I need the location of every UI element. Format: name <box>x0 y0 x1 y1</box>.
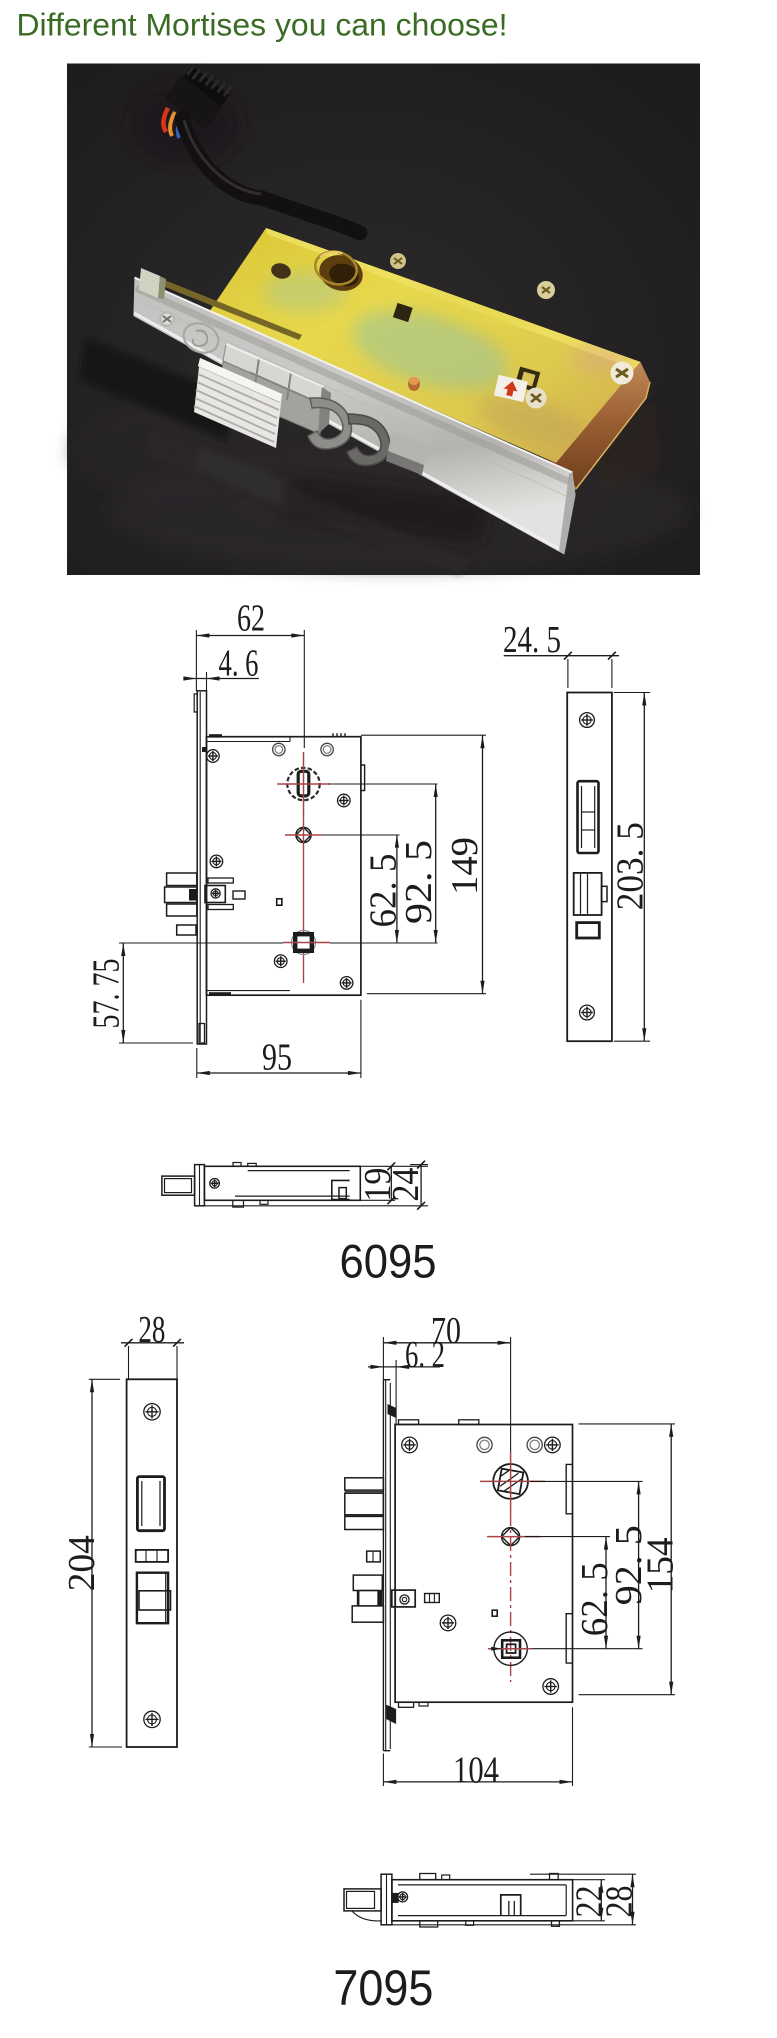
shadow band below faceplate <box>80 338 232 440</box>
7095 right edge tab B <box>566 1614 572 1663</box>
dimension 95 <box>197 1000 361 1079</box>
red arrow sticker <box>494 375 528 402</box>
7095 body bottom tabs <box>399 1702 429 1707</box>
6095 screw D <box>274 955 287 968</box>
svg-text:4. 6: 4. 6 <box>219 643 259 685</box>
6095 faceplate latch cutout <box>578 781 599 853</box>
7095 cylinder hole <box>493 1464 528 1499</box>
6095 screw B <box>338 794 351 807</box>
7095 right edge tab A <box>566 1464 572 1513</box>
6095 body bottom edge details <box>207 991 291 996</box>
7095 faceplate narrow cutout <box>136 1550 168 1562</box>
7095 lock body outline <box>395 1425 572 1703</box>
dimension 28 <box>121 1309 184 1379</box>
6095 bottom view faceplate <box>195 1165 205 1206</box>
6095 aux bolt assembly <box>205 878 245 910</box>
deadbolt spindle square hole <box>515 367 541 392</box>
page title text <box>17 6 508 42</box>
dimension 22 <box>568 1880 610 1921</box>
cylinder hole in gold plate <box>311 247 367 296</box>
gold plate green patina patches <box>263 260 630 456</box>
dimension 4.6 <box>183 643 258 738</box>
faceplate top end tab <box>139 268 166 299</box>
dimension 62.5 <box>363 835 405 943</box>
svg-text:95: 95 <box>262 1037 292 1079</box>
stainless faceplate strip <box>133 278 575 555</box>
photo floor reflection glow <box>70 405 690 570</box>
lock body gold plate <box>205 228 641 463</box>
6095 faceplate front view outline <box>567 693 612 1042</box>
7095 post hole A <box>477 1437 492 1452</box>
6095 faceplate screw top <box>580 713 595 728</box>
svg-text:6. 2: 6. 2 <box>405 1334 445 1376</box>
7095 hole extension lines <box>525 1424 675 1695</box>
6095 screw E <box>340 977 353 990</box>
6095 right edge tab <box>361 765 365 791</box>
6095 bottom view top tabs <box>233 1163 256 1167</box>
svg-text:149: 149 <box>444 837 486 895</box>
6095 tiny square mark <box>277 899 282 905</box>
7095 label text <box>333 1960 433 2016</box>
dimension 24.5 <box>503 619 619 688</box>
7095 screw B <box>545 1437 561 1453</box>
6095 screw A <box>207 750 220 763</box>
lock case copper side face <box>441 362 650 491</box>
screw top right on gold plate <box>611 362 634 385</box>
7095 faceplate screw top <box>144 1404 160 1420</box>
svg-text:24. 5: 24. 5 <box>503 619 561 661</box>
svg-text:104: 104 <box>453 1750 499 1792</box>
screw upper middle on gold plate <box>537 281 555 299</box>
screw on case front edge <box>390 253 406 269</box>
6095 post hole A <box>273 743 285 755</box>
6095 vertical red centerline <box>303 814 305 983</box>
7095 faceplate screw bottom <box>144 1711 160 1727</box>
7095 deadbolt spindle hole <box>488 1632 532 1665</box>
7095 faceplate outline <box>127 1379 177 1747</box>
7095 faceplate latch cutout <box>137 1477 164 1531</box>
dimension 62 <box>196 598 304 749</box>
dimension 154 <box>639 1424 681 1695</box>
7095 screw A <box>402 1437 418 1453</box>
screw on faceplate <box>159 311 175 327</box>
reflection of lock on floor <box>130 85 660 575</box>
dimension 92.5 <box>398 784 440 943</box>
svg-text:204: 204 <box>61 1535 103 1591</box>
svg-text:203. 5: 203. 5 <box>609 822 651 910</box>
svg-text:Different Mortises you can cho: Different Mortises you can choose! <box>17 6 508 42</box>
6095 screw C <box>210 855 223 868</box>
6095 faceplate small cutout <box>577 923 600 938</box>
7095 bottom view latch <box>344 1889 382 1921</box>
7095 bottom view screw <box>392 1892 408 1903</box>
6095 deadbolt spindle hole <box>283 931 330 955</box>
dimension 57.75 <box>86 943 194 1043</box>
svg-text:28: 28 <box>598 1886 640 1918</box>
svg-text:57. 75: 57. 75 <box>86 959 128 1029</box>
7095 cylinder hole centerlines <box>480 1452 545 1512</box>
svg-text:62: 62 <box>237 598 265 640</box>
latch bolt slabs <box>220 344 346 434</box>
photo background <box>67 64 700 576</box>
6095 label text <box>340 1235 437 1288</box>
spring bolt curls <box>308 398 428 475</box>
7095 post hole B <box>527 1437 542 1452</box>
6095 bottom view body <box>204 1166 360 1200</box>
svg-text:6095: 6095 <box>340 1235 437 1288</box>
7095 tiny square mark <box>492 1610 497 1616</box>
dimension 203.5 <box>609 693 651 1042</box>
dimension 19 <box>357 1162 428 1204</box>
7095 aux bolt bars <box>352 1575 383 1622</box>
dimension 92.5 7095 <box>608 1481 650 1648</box>
connector wires <box>163 108 189 140</box>
6095 cylinder hole centerlines <box>277 752 330 814</box>
embossed logo on faceplate <box>179 318 223 358</box>
6095 handle hub hole <box>296 827 311 842</box>
7095 bottom view top tabs <box>420 1874 558 1880</box>
rivet pin on gold plate <box>408 377 420 391</box>
svg-text:24: 24 <box>385 1168 427 1202</box>
6095 hole extension lines <box>119 735 486 994</box>
7095 body top tabs <box>399 1420 479 1425</box>
7095 bottom view faceplate <box>381 1874 392 1925</box>
case front edge behind faceplate <box>150 275 302 340</box>
svg-text:7095: 7095 <box>333 1960 433 2016</box>
svg-text:92. 5: 92. 5 <box>398 840 440 924</box>
6095 body top edge details <box>207 733 346 741</box>
6095 latch bolt bars <box>165 873 197 916</box>
black cable <box>182 118 360 233</box>
7095 latch guide small rect <box>367 1551 381 1562</box>
wire harness connector <box>164 58 236 129</box>
7095 faceplate side strip <box>383 1380 396 1751</box>
6095 latch guide small rect <box>177 925 196 935</box>
dimension 204 <box>61 1379 122 1747</box>
7095 vertical red centerline <box>510 1512 512 1682</box>
6095 lock body outline <box>207 737 361 996</box>
photo defs <box>0 0 1 1</box>
7095 bottom view detail square <box>501 1895 521 1916</box>
6095 bottom view latch <box>162 1176 195 1195</box>
7095 latch bolt bars <box>345 1478 384 1530</box>
7095 handle hub hole <box>487 1528 540 1546</box>
7095 faceplate deadbolt cutout <box>137 1573 171 1624</box>
svg-text:28: 28 <box>138 1309 165 1351</box>
6095 bottom view bottom tabs <box>233 1200 268 1207</box>
dimension 6.2 <box>368 1334 445 1425</box>
dimension 28 bottom <box>392 1874 640 1925</box>
6095 bottom view screw <box>210 1179 220 1189</box>
7095 screw D <box>543 1679 559 1695</box>
7095 bottom view bottom tabs <box>420 1921 560 1927</box>
svg-text:154: 154 <box>639 1537 681 1593</box>
dimension 149 <box>444 735 486 994</box>
screw right lower on gold plate <box>526 388 547 409</box>
small hole in gold plate <box>269 261 292 281</box>
7095 screw C <box>440 1615 456 1631</box>
handle spindle square hole <box>393 303 413 322</box>
laminated latch stack <box>194 358 282 448</box>
dimension 70 <box>383 1310 510 1452</box>
6095 faceplate screw bottom <box>580 1005 595 1020</box>
7095 bottom view body <box>392 1880 573 1921</box>
dimension 24 <box>200 1161 428 1210</box>
dimension 62.5 7095 <box>574 1537 616 1649</box>
dimension 104 <box>383 1707 572 1791</box>
6095 cylinder hole <box>287 768 319 800</box>
6095 faceplate side strip <box>194 691 206 1044</box>
6095 post hole B <box>321 743 333 755</box>
6095 bottom view detail square <box>332 1180 350 1199</box>
6095 handle hub centerlines <box>285 834 322 836</box>
7095 aux block right of plate <box>392 1590 440 1607</box>
6095 faceplate deadbolt cutout <box>574 873 607 915</box>
